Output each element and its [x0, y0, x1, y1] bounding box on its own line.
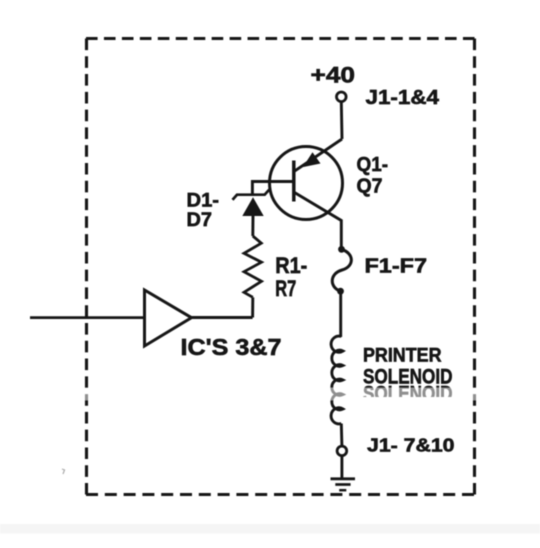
wire base lead	[252, 182, 294, 195]
dashed enclosure border bottom	[86, 493, 475, 496]
svg-text:R7: R7	[275, 276, 296, 301]
svg-text:J1- 7&10: J1- 7&10	[367, 435, 455, 456]
svg-text:R1-: R1-	[275, 253, 307, 278]
terminal J1-1&4	[337, 92, 347, 102]
wire buffer output	[191, 316, 253, 319]
dashed enclosure border left	[85, 39, 88, 495]
scan artifact light band	[0, 388, 540, 401]
svg-text:+40: +40	[311, 63, 356, 88]
buffer IC triangle	[145, 290, 192, 346]
wire solenoid to terminal	[340, 424, 344, 446]
wire terminal to emitter	[340, 102, 344, 139]
svg-text:F1-F7: F1-F7	[365, 254, 428, 277]
svg-text:SOLENOID: SOLENOID	[363, 365, 453, 389]
fuse F1 top junction dot	[338, 246, 345, 253]
svg-text:D7: D7	[187, 209, 213, 231]
wire diode to resistor	[251, 216, 254, 236]
transistor Q1 circle	[270, 147, 343, 220]
dashed enclosure border right	[473, 39, 476, 495]
wire input	[30, 316, 145, 319]
fuse F1 s-curve	[332, 250, 351, 292]
transistor Q1 base bar	[292, 161, 296, 202]
svg-text:IC'S 3&7: IC'S 3&7	[181, 334, 282, 360]
solenoid coil L	[331, 336, 343, 424]
svg-text:Q7: Q7	[357, 175, 383, 198]
fuse F1 bottom junction dot	[337, 288, 344, 295]
wire terminal to ground	[340, 456, 343, 478]
ghost scan artifact SOLENOID	[363, 382, 453, 406]
transistor Q1 collector lead	[295, 193, 342, 247]
diode D1 triangle	[242, 197, 263, 216]
resistor R1 zigzag	[244, 236, 262, 297]
svg-text:J1-1&4: J1-1&4	[366, 86, 440, 109]
scan artifact speck	[62, 469, 65, 474]
scan artifact faint stripe bottom	[0, 524, 540, 534]
svg-text:Q1-: Q1-	[357, 153, 389, 176]
wire fuse to solenoid	[339, 291, 342, 337]
svg-text:PRINTER: PRINTER	[363, 346, 442, 367]
terminal J1-7&10	[337, 446, 347, 456]
ground	[331, 479, 356, 490]
wire emitter diagonal	[294, 139, 342, 171]
wire resistor to output node	[251, 297, 254, 317]
transistor Q1 emitter arrow	[303, 152, 321, 167]
dashed enclosure border top	[86, 37, 475, 40]
diode D1 cathode bar (zener)	[233, 190, 270, 200]
